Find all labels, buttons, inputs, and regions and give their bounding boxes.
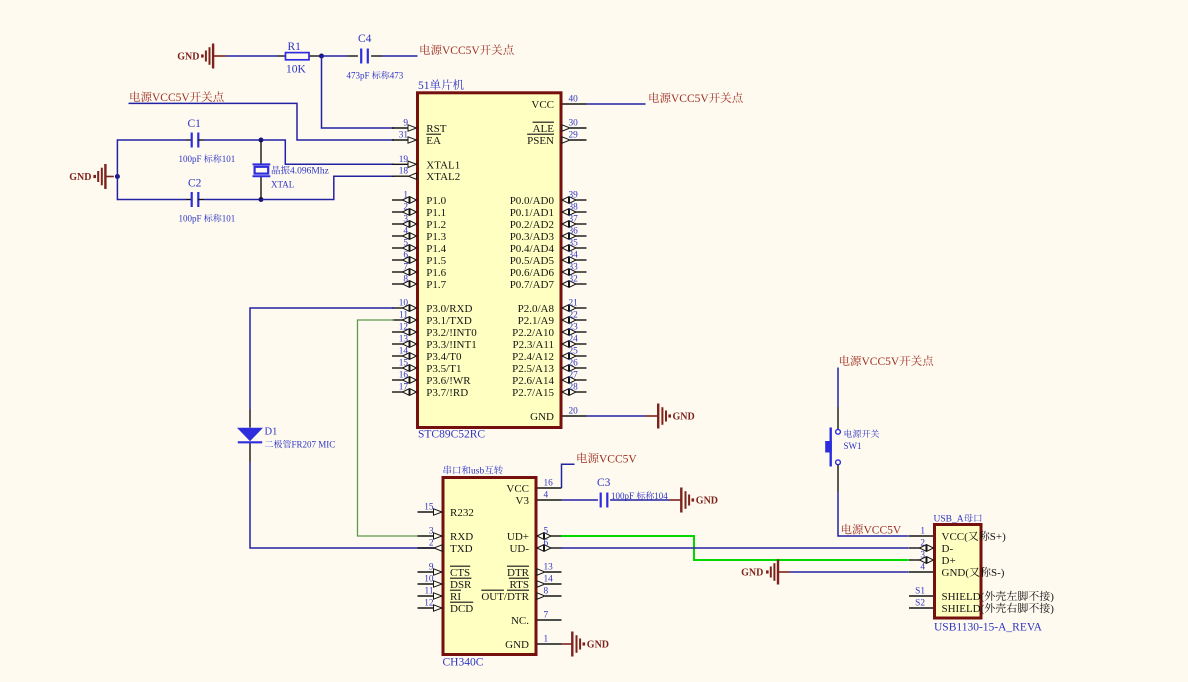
U1 pin 31 EA [392,131,441,148]
svg-text:33: 33 [569,263,579,273]
svg-text:GND(: GND( [942,567,970,579]
svg-text:40: 40 [569,95,579,105]
svg-text:SW1: SW1 [844,441,862,451]
svg-text:7: 7 [544,611,549,621]
U1 pin 25 P2.4/A12 [512,347,586,364]
U2 pin 5 UD+ [507,527,562,544]
U1 pin 8 P1.7 [392,275,447,292]
svg-text:P2.3/A11: P2.3/A11 [513,339,554,351]
svg-text:51: 51 [418,80,430,92]
svg-text:DSR: DSR [450,579,472,591]
resistor R1 [278,53,322,60]
svg-text:7: 7 [403,263,408,273]
U1 pin 21 P2.0/A8 [518,299,587,316]
U1 pin 4 P1.3 [392,227,447,244]
svg-text:S-): S-) [991,567,1005,579]
svg-text:4.096Mhz: 4.096Mhz [290,167,329,177]
U2 pin 4 V3 [516,491,562,508]
svg-text:36: 36 [569,227,579,237]
label SW1 [844,441,862,451]
title USB_A母口 [934,514,982,525]
junction R1-C4 node [319,54,324,59]
svg-text:32: 32 [569,275,579,285]
U1 pin 22 P2.1/A9 [518,311,587,328]
title 串口和usb互转 [444,465,503,476]
svg-text:GND: GND [587,640,609,651]
IC U1 51单片机 STC89C52RC body [418,93,562,428]
svg-text:1: 1 [544,635,549,645]
wire junction down to RST [322,56,395,128]
net label 电源VCC5V开关点 (EA net) [130,91,223,104]
U1 pin 6 P1.5 [392,251,447,268]
svg-text:100pF: 100pF [179,214,202,224]
svg-text:13: 13 [544,563,554,573]
net label 电源VCC5V (USB pin1) [842,524,902,537]
svg-text:RST: RST [426,123,446,135]
wire C1 row left [117,139,191,141]
svg-text:101: 101 [222,154,236,164]
wire GND pin1 U2 [562,643,573,645]
wire EA net [129,103,395,140]
svg-text:P3.0/RXD: P3.0/RXD [426,303,472,315]
svg-text:D-: D- [942,543,954,555]
svg-text:5: 5 [544,527,549,537]
designator CH340C [443,657,484,669]
U1 pin 1 P1.0 [392,191,447,208]
svg-text:13: 13 [399,335,409,345]
svg-text:): ) [1050,603,1054,615]
svg-text:GND: GND [69,172,91,183]
crystal XTAL [253,140,271,200]
svg-text:P2.0/A8: P2.0/A8 [518,303,555,315]
U1 pin 39 P0.0/AD0 [510,191,587,208]
svg-text:TXD: TXD [450,543,473,555]
U1 pin 30 ALE [533,119,587,136]
svg-text:P0.3/AD3: P0.3/AD3 [510,231,555,243]
capacitor C1 [192,133,199,148]
svg-text:P3.1/TXD: P3.1/TXD [426,315,472,327]
svg-text:VCC: VCC [531,99,554,111]
svg-text:R1: R1 [288,41,302,53]
value 10K [286,64,307,76]
svg-text:NC.: NC. [511,615,529,627]
svg-text:22: 22 [569,311,579,321]
wire GND pin20 [587,415,659,417]
svg-text:18: 18 [399,167,409,177]
svg-text:S+): S+) [990,531,1006,543]
svg-text:10: 10 [399,299,409,309]
U2 pin 13 DTR [507,563,562,580]
svg-text:P0.1/AD1: P0.1/AD1 [510,207,554,219]
svg-text:FR207 MIC: FR207 MIC [292,440,336,450]
svg-text:5: 5 [403,239,408,249]
wire to XTAL2 [261,176,394,199]
U1 pin 9 RST [392,119,447,136]
label C4 [358,33,372,45]
svg-text:USB1130-15-A_REVA: USB1130-15-A_REVA [934,622,1043,634]
designator USB1130-15-A_REVA [934,622,1043,634]
svg-text:P0.6/AD6: P0.6/AD6 [510,267,555,279]
U1 pin 23 P2.2/A10 [512,323,586,340]
svg-text:VCC5V: VCC5V [862,356,900,368]
svg-text:37: 37 [569,215,579,225]
J1 pin 3 D+ [909,551,956,568]
U1 pin 16 P3.6/!WR [392,371,471,388]
svg-text:29: 29 [569,131,579,141]
capacitor C2 [192,192,199,207]
svg-text:4: 4 [544,491,549,501]
svg-text:100pF: 100pF [179,154,202,164]
svg-text:P1.5: P1.5 [426,255,446,267]
svg-text:1: 1 [403,191,408,201]
U1 pin 13 P3.3/!INT1 [392,335,477,352]
svg-text:14: 14 [399,347,409,357]
U1 pin 40 VCC [531,95,586,112]
svg-text:15: 15 [399,359,409,369]
wire gnd to USB pin4 [790,571,909,573]
svg-text:P3.4/T0: P3.4/T0 [426,351,462,363]
svg-text:S1: S1 [915,587,925,597]
value 473pF 标称473 [347,71,404,81]
U1 pin 19 XTAL1 [392,155,460,172]
value 100pF 标称101 (C1) [179,154,236,164]
U1 pin 14 P3.4/T0 [392,347,462,364]
junction XTAL top node [259,138,264,143]
svg-text:UD-: UD- [509,543,529,555]
ground GND (USB pin4) [741,560,790,585]
connector J1 USB_A母口 body [935,525,982,619]
U1 pin 10 P3.0/RXD [392,299,473,316]
label C3 [597,477,611,489]
svg-text:GND: GND [673,412,695,423]
designator STC89C52RC [418,429,485,441]
svg-text:2: 2 [920,539,925,549]
svg-text:XTAL1: XTAL1 [426,159,460,171]
svg-text:25: 25 [569,347,579,357]
IC U2 CH340C body [443,478,536,655]
svg-text:GND: GND [177,52,199,63]
svg-text:C2: C2 [188,178,202,190]
svg-text:P3.5/T1: P3.5/T1 [426,363,461,375]
svg-text:19: 19 [399,155,409,165]
svg-text:17: 17 [399,383,409,393]
label 晶振4.096Mhz [272,166,329,177]
svg-text:24: 24 [569,335,579,345]
U1 pin 34 P0.5/AD5 [510,251,587,268]
U1 pin 36 P0.3/AD3 [510,227,587,244]
junction XTAL bottom node [259,197,264,202]
svg-text:P2.6/A14: P2.6/A14 [512,375,554,387]
svg-text:6: 6 [403,251,408,261]
J1 pin 4 GND(又称S-) [909,563,1005,580]
svg-text:P0.4/AD4: P0.4/AD4 [510,243,555,255]
svg-text:EA: EA [426,135,441,147]
svg-text:38: 38 [569,203,579,213]
U2 pin 1 GND [505,635,561,652]
svg-text:35: 35 [569,239,579,249]
wire to XTAL1 [261,140,394,164]
svg-text:P1.2: P1.2 [426,219,446,231]
U2 pin 2 TXD [418,539,473,556]
svg-text:8: 8 [544,587,549,597]
label XTAL [271,180,294,190]
svg-text:31: 31 [399,131,409,141]
svg-text:usb: usb [471,467,484,477]
svg-text:30: 30 [569,119,579,129]
svg-text:P0.0/AD0: P0.0/AD0 [510,195,555,207]
label 二极管FR207 MIC [265,440,335,450]
svg-text:DTR: DTR [507,567,530,579]
svg-text:27: 27 [569,371,579,381]
wire junction to C4 [322,55,358,57]
svg-text:XTAL: XTAL [271,180,294,190]
svg-text:P3.2/!INT0: P3.2/!INT0 [426,327,477,339]
U1 pin 32 P0.7/AD7 [510,275,587,292]
U1 pin 20 GND [530,407,586,424]
svg-text:473: 473 [390,71,404,81]
wire P3.0 to TXD (via D1) [250,308,436,548]
U1 pin 33 P0.6/AD6 [510,263,587,280]
wire C3 to gnd [610,499,681,501]
svg-text:SHIELD(: SHIELD( [942,591,985,603]
J1 pin 1 VCC(又称S+) [909,527,1006,544]
svg-text:RI: RI [450,591,461,603]
svg-text:UD+: UD+ [507,531,529,543]
svg-text:GND: GND [696,496,718,507]
wire switch top [837,368,839,430]
svg-text:1: 1 [920,527,925,537]
J1 pin S1 SHIELD [909,587,1054,604]
wire VCC pin40 [587,103,646,105]
svg-text:11: 11 [399,311,408,321]
svg-text:RTS: RTS [509,579,529,591]
svg-text:3: 3 [403,215,408,225]
svg-text:D1: D1 [265,427,278,438]
wire UD- to D- [561,547,909,549]
svg-text:S2: S2 [915,599,925,609]
wire left vertical C1-C2 [116,139,118,200]
label 电源开关 [845,429,880,437]
U1 pin 35 P0.4/AD4 [510,239,587,256]
svg-text:VCC5V: VCC5V [152,92,190,104]
svg-text:4: 4 [403,227,408,237]
net label 电源VCC5V开关点 (VCC pin40) [649,92,742,105]
svg-text:P2.4/A12: P2.4/A12 [512,351,554,363]
svg-text:28: 28 [569,383,579,393]
U1 pin 5 P1.4 [392,239,447,256]
svg-text:P0.7/AD7: P0.7/AD7 [510,279,555,291]
U2 pin 12 DCD [418,599,474,616]
svg-text:USB_A: USB_A [934,515,964,525]
ground GND (right of U1) [658,404,695,429]
wire P3.1 to RXD [358,320,418,536]
label R1 [288,41,302,53]
ground GND (right of C3) [681,488,718,513]
svg-text:6: 6 [544,539,549,549]
svg-text:VCC5V: VCC5V [599,453,637,465]
ground GND (left-mid) [69,164,114,189]
net label 电源VCC5V开关点 (top) [420,44,513,57]
svg-text:P2.5/A13: P2.5/A13 [512,363,554,375]
ground GND (top-left) [177,44,226,69]
svg-text:C3: C3 [597,477,611,489]
svg-text:26: 26 [569,359,579,369]
svg-text:SHIELD(: SHIELD( [942,603,985,615]
svg-text:4: 4 [920,563,925,573]
svg-text:11: 11 [425,587,434,597]
junction left gnd node [115,174,120,179]
svg-text:P2.1/A9: P2.1/A9 [518,315,555,327]
label D1 [265,427,278,438]
diode D1 [237,428,263,443]
wire VCC16 up [562,464,575,488]
title 51单片机 [418,79,464,92]
svg-text:XTAL2: XTAL2 [426,171,460,183]
svg-text:12: 12 [424,599,434,609]
svg-text:P2.7/A15: P2.7/A15 [512,387,554,399]
U2 pin 9 CTS [418,563,471,580]
svg-text:OUT/DTR: OUT/DTR [481,591,529,603]
svg-text:P1.4: P1.4 [426,243,446,255]
svg-text:3: 3 [920,551,925,561]
svg-text:PSEN: PSEN [527,135,554,147]
svg-text:P3.3/!INT1: P3.3/!INT1 [426,339,476,351]
svg-text:D+: D+ [942,555,956,567]
svg-text:P1.6: P1.6 [426,267,446,279]
svg-text:VCC5V: VCC5V [671,93,709,105]
capacitor C3 [601,493,608,508]
svg-text:101: 101 [222,214,236,224]
U1 pin 18 XTAL2 [392,167,460,184]
svg-text:P3.6/!WR: P3.6/!WR [426,375,471,387]
U2 pin 3 RXD [418,527,474,544]
svg-text:3: 3 [429,527,434,537]
U1 pin 11 P3.1/TXD [392,311,472,328]
U1 pin 38 P0.1/AD1 [510,203,587,220]
svg-text:P1.1: P1.1 [426,207,446,219]
ground GND (U2 pin1) [572,632,609,657]
svg-text:473pF: 473pF [347,71,370,81]
svg-text:2: 2 [403,203,408,213]
U2 pin 14 RTS [509,575,562,592]
svg-text:23: 23 [569,323,579,333]
label C1 [188,118,202,130]
U1 pin 12 P3.2/!INT0 [392,323,477,340]
svg-text:DCD: DCD [450,603,473,615]
svg-text:VCC(: VCC( [942,531,969,543]
U1 pin 24 P2.3/A11 [513,335,587,352]
svg-text:16: 16 [399,371,409,381]
label C2 [188,178,202,190]
U1 pin 2 P1.1 [392,203,446,220]
svg-text:CTS: CTS [450,567,470,579]
wire switch bottom [838,465,909,536]
wire C2 to junction [198,199,261,201]
svg-text:15: 15 [424,503,434,513]
U2 pin 10 DSR [418,575,473,592]
svg-text:2: 2 [429,539,434,549]
svg-text:RXD: RXD [450,531,473,543]
net label 电源VCC5V (U2) [577,453,637,466]
svg-text:STC89C52RC: STC89C52RC [418,429,485,441]
svg-text:P0.2/AD2: P0.2/AD2 [510,219,554,231]
U1 pin 37 P0.2/AD2 [510,215,587,232]
svg-text:14: 14 [544,575,554,585]
svg-text:VCC: VCC [506,483,529,495]
svg-text:10K: 10K [286,64,307,76]
svg-text:VCC5V: VCC5V [442,45,480,57]
U1 pin 7 P1.6 [392,263,447,280]
J1 pin 2 D- [909,539,953,556]
svg-text:GND: GND [505,639,529,651]
svg-text:P3.7/!RD: P3.7/!RD [426,387,468,399]
U2 pin 7 NC. [511,611,562,628]
svg-text:VCC5V: VCC5V [864,525,902,537]
wire GND to R1 [226,55,278,57]
value 100pF 标称104 [611,491,668,501]
svg-text:10: 10 [424,575,434,585]
capacitor C4 [361,49,368,64]
svg-text:C4: C4 [358,33,372,45]
svg-text:8: 8 [403,275,408,285]
U2 pin 15 R232 [418,503,474,520]
svg-text:GND: GND [741,568,763,579]
svg-text:GND: GND [530,411,554,423]
wire V3 to C3 [562,499,599,501]
svg-text:P1.0: P1.0 [426,195,446,207]
wire C1 to junction [198,139,261,141]
U1 pin 27 P2.6/A14 [512,371,586,388]
svg-text:34: 34 [569,251,579,261]
svg-text:R232: R232 [450,507,474,519]
U2 pin 6 UD- [509,539,561,556]
value 100pF 标称101 (C2) [179,214,236,224]
net label 电源VCC5V开关点 (switch top) [840,355,933,368]
U1 pin 26 P2.5/A13 [512,359,586,376]
switch SW1 电源开关 [825,428,840,467]
U2 pin 8 OUT/DTR [481,587,561,604]
wire C2 row left [117,199,191,201]
svg-text:16: 16 [544,479,554,489]
U2 pin 16 VCC [506,479,561,496]
wire UD+ to D+ [561,536,909,560]
U1 pin 3 P1.2 [392,215,446,232]
svg-text:C1: C1 [188,118,202,130]
U2 pin 11 RI [418,587,462,604]
svg-text:P2.2/A10: P2.2/A10 [512,327,554,339]
wire C4 to net label [371,55,417,57]
svg-text:39: 39 [569,191,579,201]
svg-text:12: 12 [399,323,409,333]
svg-text:9: 9 [403,119,408,129]
svg-text:P0.5/AD5: P0.5/AD5 [510,255,555,267]
svg-text:9: 9 [429,563,434,573]
svg-text:): ) [1050,591,1054,603]
svg-text:P1.7: P1.7 [426,279,446,291]
svg-text:ALE: ALE [533,123,555,135]
U1 pin 28 P2.7/A15 [512,383,586,400]
J1 pin S2 SHIELD [909,599,1054,616]
U1 pin 17 P3.7/!RD [392,383,468,400]
svg-text:21: 21 [569,299,579,309]
svg-text:P1.3: P1.3 [426,231,446,243]
svg-text:20: 20 [569,407,579,417]
svg-text:CH340C: CH340C [443,657,484,669]
U1 pin 15 P3.5/T1 [392,359,461,376]
svg-text:V3: V3 [516,495,530,507]
U1 pin 29 PSEN [527,131,586,148]
